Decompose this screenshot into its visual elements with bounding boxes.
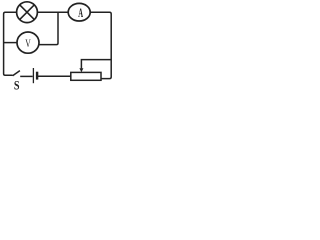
svg-text:V: V (25, 38, 31, 51)
svg-text:S: S (14, 80, 20, 93)
svg-text:A: A (78, 7, 83, 21)
